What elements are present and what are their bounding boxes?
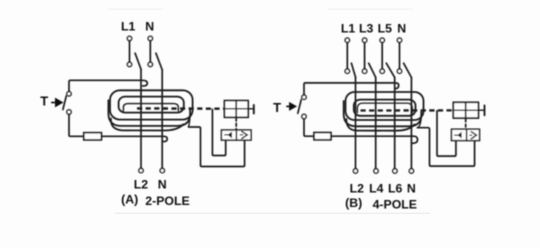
svg-text:N: N [407,182,416,196]
svg-text:(B): (B) [345,196,362,210]
svg-text:L1: L1 [121,20,136,34]
svg-text:L3: L3 [359,22,374,36]
svg-text:N: N [145,20,154,34]
svg-text:L5: L5 [378,22,393,36]
svg-text:T: T [40,93,48,108]
svg-text:2-POLE: 2-POLE [145,194,189,208]
svg-text:L2: L2 [350,182,365,196]
svg-text:L6: L6 [388,182,403,196]
svg-text:L1: L1 [341,22,356,36]
svg-text:4-POLE: 4-POLE [373,197,417,211]
svg-text:N: N [397,22,406,36]
svg-text:L2: L2 [134,177,149,191]
svg-text:T: T [273,100,281,115]
svg-text:N: N [158,177,167,191]
svg-text:L4: L4 [369,182,384,196]
svg-text:(A): (A) [121,192,138,206]
